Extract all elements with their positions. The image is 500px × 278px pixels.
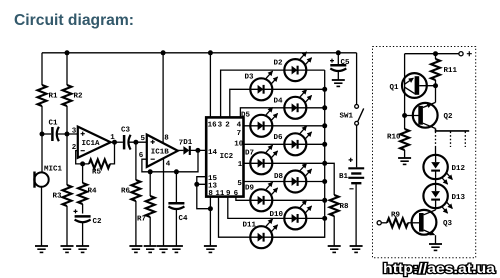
wire R3 branch (66, 134, 68, 246)
LED D13 (423, 184, 452, 213)
wire module V+ (405, 53, 459, 55)
svg-text:R5: R5 (92, 169, 102, 177)
svg-text:MIC1: MIC1 (44, 165, 63, 174)
wire Q2 emitter to LED strings (436, 129, 470, 131)
node pin8-15-13 (208, 206, 213, 211)
wire R6 branch (135, 142, 137, 246)
ground R7 (144, 246, 157, 252)
LED D3 (250, 71, 277, 100)
svg-text:16: 16 (208, 121, 218, 130)
LED D4 (284, 90, 311, 119)
resistor R2 (63, 85, 72, 106)
svg-text:C4: C4 (179, 214, 189, 223)
node V+ R11 (433, 51, 438, 56)
svg-text:10: 10 (234, 140, 244, 149)
resistor R7 (146, 196, 155, 217)
wire D1 to IC2 pin14 (190, 149, 206, 151)
node pin15-13 (194, 182, 199, 187)
wire IC1B pin4 to ground (163, 159, 165, 247)
svg-text:9: 9 (226, 189, 231, 198)
svg-text:R10: R10 (387, 133, 401, 142)
wire dotted string 1 (435, 132, 437, 148)
node bus D3 (322, 87, 327, 92)
svg-text:IC1A: IC1A (82, 139, 101, 148)
transistor Q2 (405, 102, 453, 128)
svg-text:D9: D9 (245, 184, 255, 193)
resistor R6 (131, 180, 140, 201)
wire IC2 pin6 to D9 row (236, 197, 325, 201)
node IC1A out / R5 (112, 140, 117, 145)
LED D7 (250, 145, 277, 174)
svg-text:D1: D1 (183, 139, 193, 147)
svg-text:C1: C1 (49, 119, 59, 128)
svg-text:Circuit diagram:: Circuit diagram: (14, 12, 134, 29)
wire IC2 pin16 to rail (209, 53, 211, 118)
node C3-R6-pin5 (133, 140, 138, 145)
resistor R10 (400, 129, 409, 150)
svg-text:Q1: Q1 (390, 83, 400, 92)
svg-text:D13: D13 (452, 193, 466, 202)
svg-text:2: 2 (225, 121, 230, 130)
svg-text:C2: C2 (93, 217, 103, 226)
svg-text:R2: R2 (74, 92, 84, 101)
node bus D5 (322, 123, 327, 128)
ground C4 (170, 246, 183, 252)
ground R6 (129, 246, 142, 252)
svg-text:R7: R7 (137, 216, 146, 224)
svg-text:3: 3 (72, 127, 77, 136)
resistor R11 (435, 54, 437, 59)
wire IC2 pin2 to D3 row (230, 89, 325, 117)
svg-text:R3: R3 (53, 192, 63, 201)
wire IC1A output (111, 141, 123, 143)
svg-text:D12: D12 (452, 164, 466, 173)
svg-text:D8: D8 (274, 172, 284, 181)
svg-text:8: 8 (164, 134, 169, 143)
node R1-C1-MIC1 (40, 132, 45, 137)
LED D2 (284, 52, 311, 81)
node Q1-R10-Q2base (402, 113, 407, 118)
resistor R8 (330, 195, 339, 216)
svg-text:IC1B: IC1B (151, 148, 170, 157)
wire R7 branch (149, 172, 151, 246)
battery B1 (339, 158, 364, 246)
node bus D4 (322, 105, 327, 110)
wire Q3 emitter (435, 235, 437, 244)
node bus D7-R8 (322, 161, 327, 166)
LED D6 (284, 126, 311, 155)
svg-text:D4: D4 (274, 98, 284, 106)
svg-text:C5: C5 (341, 58, 351, 67)
node rail-IC2 pin16 (208, 50, 213, 55)
node R2-C1-R3-pin3 (65, 132, 70, 137)
resistor R3 (63, 185, 72, 206)
node bus D8 (322, 179, 327, 184)
capacitor C1 (42, 119, 78, 142)
svg-text:D5: D5 (241, 112, 251, 120)
capacitor C2 (74, 209, 103, 246)
wire top supply rail (42, 52, 357, 54)
LED D9 (250, 182, 277, 211)
node R5-R4-pin2 (80, 161, 85, 166)
svg-text:R9: R9 (391, 211, 401, 220)
wire IC2 pin9 to D10 row (228, 197, 325, 219)
wire IC2 pin8 ground (209, 197, 211, 246)
svg-text:D3: D3 (245, 73, 255, 82)
LED D10 (284, 200, 311, 229)
transistor Q1 (390, 54, 436, 116)
ground R8 (328, 246, 341, 252)
ground IC2 pin8 (204, 246, 217, 252)
svg-text:B1: B1 (339, 173, 349, 181)
node Q1 base R11 (433, 83, 438, 88)
terminal + output (459, 52, 463, 56)
LED D12 (423, 155, 452, 184)
ground Q3 (429, 244, 442, 250)
wire R5 to output (110, 142, 115, 164)
node bus D6 (322, 142, 327, 147)
diode D1 (183, 139, 193, 155)
svg-text:http://aes.at.ua: http://aes.at.ua (383, 261, 496, 276)
node rail-C5 (336, 50, 341, 55)
svg-text:R11: R11 (444, 67, 458, 75)
capacitor C3 (121, 126, 147, 150)
svg-text:5: 5 (141, 135, 146, 143)
wire IC2 pin7 to D5 row (244, 125, 325, 127)
svg-text:11: 11 (215, 190, 225, 198)
node rail-R2 (65, 50, 70, 55)
ground MIC1 (35, 246, 48, 252)
svg-text:4: 4 (237, 122, 242, 130)
svg-text:D6: D6 (274, 133, 284, 142)
wire dotted string 2 (450, 132, 452, 148)
dotted module box (373, 47, 476, 258)
svg-text:R8: R8 (340, 202, 350, 211)
resistor R1 (38, 85, 47, 106)
svg-text:Q2: Q2 (444, 112, 454, 121)
IC2 body (206, 117, 243, 196)
node R7 junction (148, 169, 153, 174)
LED D5 (250, 108, 277, 137)
ground C2 (76, 246, 89, 252)
wire IC2 pin1 to D7 row (244, 162, 325, 164)
wire IC1B pin8 to rail (162, 53, 164, 144)
resistor R4 (78, 183, 87, 204)
svg-text:7: 7 (237, 130, 242, 138)
ground R10 (398, 158, 411, 164)
svg-text:5: 5 (237, 180, 242, 188)
ground R3 (61, 246, 74, 252)
wire IC2 pin11 to D11 row (219, 197, 325, 238)
wire dotted string 3 (464, 132, 466, 148)
resistor R9 (381, 222, 387, 224)
svg-text:14: 14 (208, 149, 218, 157)
wire D13 to Q3 (435, 208, 437, 210)
svg-text:SW1: SW1 (340, 112, 354, 121)
node C4 junction (174, 169, 179, 174)
svg-text:C3: C3 (121, 126, 131, 135)
ground C5 (332, 80, 345, 86)
wire R8 branch (325, 163, 335, 246)
wire IC1B pin6 feedback net (142, 150, 198, 171)
svg-text:13: 13 (208, 181, 218, 190)
ground IC1B pin4 (157, 246, 170, 252)
capacitor C4 (168, 172, 188, 246)
svg-text:IC2: IC2 (220, 152, 234, 161)
wire LED cathode bus (272, 70, 324, 237)
wire IC2 pin5 to D8 row (244, 181, 325, 183)
svg-text:3: 3 (218, 121, 223, 130)
terminal R9 input (377, 221, 381, 225)
svg-text:4: 4 (166, 161, 171, 169)
svg-text:Q3: Q3 (443, 219, 453, 228)
wire IC2 pin15-13 net (197, 177, 211, 209)
switch SW1 (340, 53, 364, 168)
LED D11 (250, 219, 277, 248)
wire IC2 pin4 to D4 row (240, 108, 324, 118)
wire to D12 (435, 147, 437, 155)
wire R2 branch (66, 53, 68, 134)
wire IC2 pin10 to D6 row (244, 143, 325, 145)
ground B1 (350, 246, 363, 252)
svg-text:D7: D7 (245, 150, 254, 158)
wire R4 branch (82, 164, 84, 214)
wire IC1B output (178, 149, 184, 151)
wire IC2 pin3 to D2 row (221, 70, 325, 117)
wire D12-D13 (435, 179, 437, 184)
node rail-IC1B pin8 (161, 50, 166, 55)
node D1-pin14-feedback (195, 148, 200, 153)
svg-text:R6: R6 (121, 187, 131, 196)
LED D8 (284, 163, 311, 192)
svg-text:R4: R4 (88, 188, 98, 196)
svg-text:D11: D11 (243, 222, 257, 230)
svg-text:D2: D2 (274, 59, 284, 68)
transistor Q3 (412, 210, 453, 235)
wire R11 to Q2 (435, 80, 437, 102)
resistor R5 (89, 159, 110, 168)
wire IC1A pin2 feedback (76, 151, 89, 164)
capacitor C5 (330, 53, 350, 80)
node bus D10 (322, 216, 327, 221)
microphone MIC1 (34, 134, 62, 246)
wire R1 branch (41, 53, 43, 134)
svg-text:R1: R1 (49, 93, 59, 101)
svg-text:D10: D10 (270, 210, 284, 219)
op-amp IC1A (72, 127, 116, 158)
node bus D9 (322, 198, 327, 203)
wire R10 branch (404, 116, 406, 159)
svg-text:1: 1 (238, 161, 243, 169)
op-amp IC1B (139, 134, 183, 169)
